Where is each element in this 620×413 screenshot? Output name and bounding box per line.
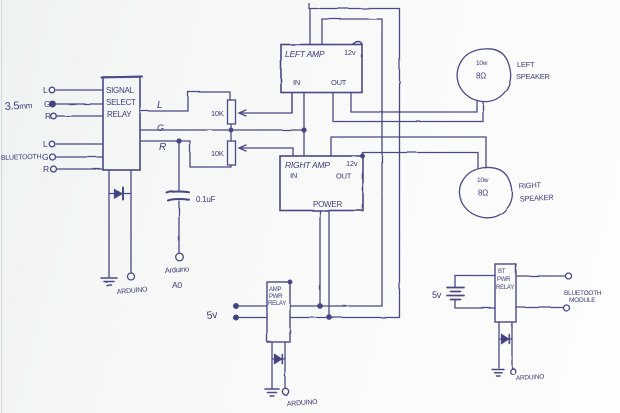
diode D1 relay flyback [115, 190, 123, 199]
junction pots G [229, 128, 233, 132]
wire net G down to right amp gnd pin [303, 130, 305, 156]
wire top outer 12v rail [309, 4, 400, 318]
junction power bus B [327, 315, 331, 319]
op-amp U3 right amp box [280, 156, 363, 211]
svg-text:RELAY: RELAY [496, 285, 514, 291]
wire net R relay to pot P2 bottom [140, 141, 231, 167]
pot P1 wiper arrow [239, 110, 246, 116]
wire net G ground bus relay to pots and amps [140, 129, 304, 131]
diode D2 amp relay flyback [275, 355, 282, 364]
wire battery + to bt relay [455, 276, 495, 288]
wire 12v bus upper left segment [236, 305, 267, 307]
op-amp U2 left amp box [281, 45, 362, 93]
junction right amp out corner [361, 154, 365, 158]
node 5v supply + [234, 304, 239, 309]
capacitor C1 0.1uF [167, 192, 189, 201]
wire relay coil pin to ground [108, 170, 110, 277]
wire amp relay coil to arduino [284, 342, 286, 388]
wire pot P2 top stub to G bus [230, 130, 232, 141]
svg-text:BT: BT [498, 269, 506, 275]
svg-text:L: L [157, 100, 162, 111]
svg-text:SELECT: SELECT [106, 98, 136, 107]
svg-text:RIGHT AMP: RIGHT AMP [285, 160, 330, 170]
svg-text:10K: 10K [211, 149, 224, 158]
svg-text:RIGHT: RIGHT [519, 180, 542, 190]
svg-text:L: L [43, 85, 48, 95]
junction power bus A [318, 304, 322, 308]
svg-text:Arduino: Arduino [165, 264, 190, 275]
svg-text:10w: 10w [476, 60, 488, 67]
left amp corner flag [353, 42, 362, 45]
svg-text:RELAY: RELAY [107, 110, 132, 119]
ground bt relay [492, 370, 504, 377]
svg-text:L: L [43, 139, 48, 149]
wire R tap down to capacitor C1 [178, 141, 180, 192]
ground relay coil [101, 278, 117, 285]
svg-text:R: R [159, 142, 166, 153]
svg-text:ARDUINO: ARDUINO [117, 286, 149, 296]
svg-text:LEFT: LEFT [517, 60, 535, 69]
battery BT1 5v plates [447, 288, 464, 300]
pot P2 wiper arrow [239, 145, 246, 151]
svg-text:5v: 5v [432, 290, 442, 300]
wire pot P1 wiper to left amp IN [240, 93, 292, 113]
wire net L relay to pot P1 top [140, 92, 230, 111]
wire 12v bus lower right segment [290, 317, 400, 319]
svg-text:PWR: PWR [269, 294, 283, 300]
wire bluetooth G to relay [56, 156, 103, 158]
wire diode bridge across relay coil [109, 193, 131, 195]
svg-text:5v: 5v [206, 309, 219, 322]
wire diode bridge bt relay [499, 338, 512, 340]
svg-text:SIGNAL: SIGNAL [106, 86, 135, 95]
wire 12v bus lower left segment [236, 317, 267, 319]
wire left amp IN pin [291, 93, 293, 114]
node bluetooth L terminal [49, 141, 55, 147]
wire top inner 12v rail [322, 19, 382, 306]
svg-text:G: G [42, 152, 48, 162]
speaker LS1 left speaker body [457, 49, 511, 102]
wire 12v bus upper right segment [290, 305, 382, 307]
node arduino bt relay drive terminal [510, 369, 516, 375]
svg-text:OUT: OUT [331, 78, 347, 87]
node arduino amp relay drive terminal [282, 388, 288, 394]
svg-text:BLUETOOTH: BLUETOOTH [564, 290, 602, 297]
wire left amp 12v pin A to top outer rail [309, 9, 311, 45]
node 3.5mm L terminal [49, 87, 55, 93]
wire right amp power pin A down [319, 211, 321, 307]
wire left amp OUT+ to left speaker [351, 93, 477, 113]
svg-text:SPEAKER: SPEAKER [516, 72, 551, 81]
svg-text:MODULE: MODULE [569, 297, 596, 304]
wire left amp 12v pin B to top inner rail [321, 19, 323, 45]
relay U4 amp power relay box [267, 282, 290, 342]
svg-text:POWER: POWER [313, 200, 342, 209]
svg-text:PWR: PWR [497, 277, 511, 283]
svg-text:IN: IN [293, 78, 300, 87]
svg-text:12v: 12v [344, 48, 356, 57]
svg-text:A0: A0 [172, 280, 182, 290]
wire pot P2 wiper to right amp IN [240, 148, 293, 156]
wire left amp OUT- to left speaker [333, 93, 483, 122]
node bluetooth module + terminal [566, 273, 572, 279]
svg-text:12v: 12v [346, 159, 358, 168]
relay U1 signal select relay box [103, 77, 140, 170]
svg-text:AMP: AMP [269, 287, 282, 293]
node 5v supply - [234, 315, 239, 320]
svg-text:LEFT AMP: LEFT AMP [285, 49, 325, 59]
wire bluetooth L to relay [56, 143, 103, 145]
ground amp relay [265, 389, 279, 396]
svg-text:OUT: OUT [336, 172, 352, 181]
node 3.5mm R terminal [51, 113, 57, 119]
potentiometer P2 10K body [228, 141, 236, 165]
diode D3 bt relay flyback [502, 335, 509, 344]
wire right amp OUT- to right speaker [331, 137, 486, 168]
junction amp relay corner [288, 280, 292, 284]
svg-text:IN: IN [290, 171, 297, 180]
node arduino A0 terminal [176, 253, 184, 261]
svg-text:G: G [44, 99, 50, 109]
potentiometer P1 10K body [228, 100, 236, 124]
wire right amp power pin B down [328, 211, 330, 318]
wire bt relay coil to arduino [511, 322, 513, 369]
svg-text:ARDUINO: ARDUINO [287, 399, 319, 408]
wire bluetooth R to relay [57, 168, 103, 170]
svg-text:G: G [157, 123, 164, 133]
node bluetooth module - terminal [563, 305, 569, 311]
wire bt relay to bluetooth module + [516, 275, 565, 277]
wire 3.5mm G to relay [56, 103, 103, 105]
svg-text:0.1uF: 0.1uF [196, 195, 216, 204]
svg-text:8Ω: 8Ω [478, 189, 488, 198]
svg-text:8Ω: 8Ω [476, 72, 486, 81]
node bluetooth G terminal [50, 154, 56, 160]
wire diode bridge amp relay [272, 358, 285, 360]
junction G amp branch [302, 128, 306, 132]
svg-text:10K: 10K [211, 109, 224, 118]
scanner left edge line [1, 0, 2, 413]
svg-text:R: R [45, 111, 51, 121]
svg-text:ARDUINO: ARDUINO [516, 374, 545, 382]
wire bt relay to bluetooth module - [516, 306, 563, 308]
wire battery - to bt relay [455, 300, 495, 309]
wire right amp OUT+ to right speaker [363, 153, 479, 169]
wire pot P1 bottom stub to G bus [230, 124, 232, 130]
wire 3.5mm R to relay [57, 115, 103, 117]
node arduino relay drive terminal [128, 273, 135, 280]
wire net G up to left amp gnd pin [303, 93, 305, 130]
wire relay coil pin to arduino [130, 170, 132, 273]
wire amp relay coil to ground [271, 342, 273, 388]
svg-text:3.5mm: 3.5mm [4, 99, 33, 113]
svg-text:RELAY: RELAY [268, 301, 286, 307]
svg-text:R: R [43, 164, 49, 174]
wire 3.5mm L to relay [56, 89, 103, 91]
svg-text:10w: 10w [477, 177, 489, 184]
wire capacitor C1 to arduino A0 terminal [178, 201, 180, 253]
svg-text:BLUETOOTH: BLUETOOTH [1, 154, 42, 162]
wire bt relay coil to ground [498, 322, 500, 368]
node bluetooth R terminal [51, 166, 57, 172]
relay U5 bluetooth power relay box [495, 264, 516, 322]
node 3.5mm G terminal [50, 101, 56, 107]
junction R capacitor tap [177, 139, 181, 143]
speaker LS2 right speaker body [459, 167, 512, 217]
svg-text:SPEAKER: SPEAKER [520, 193, 555, 204]
